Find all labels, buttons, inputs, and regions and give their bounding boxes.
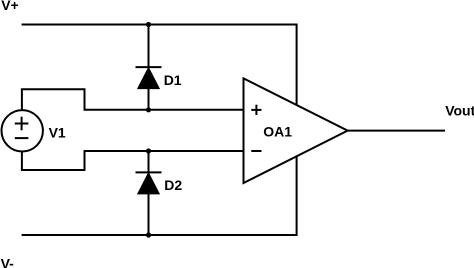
svg-text:Vout: Vout [445, 103, 474, 119]
node: D2 cathode on - input wire [146, 148, 151, 153]
svg-text:V1: V1 [49, 124, 66, 140]
svg-text:V+: V+ [1, 0, 19, 13]
wire: V- bottom rail [22, 234, 297, 236]
diode D1 [136, 24, 162, 111]
wire: V1 bottom lead to inverting path [22, 151, 85, 170]
svg-text:D1: D1 [164, 72, 182, 88]
node: D2 anode on V- rail [146, 232, 151, 237]
node: D1 cathode on V+ rail [146, 22, 151, 27]
wire: V- supply rise from op-amp bottom [296, 156, 298, 236]
svg-text:OA1: OA1 [263, 124, 292, 140]
wire: V1 top lead to noninverting path [22, 89, 85, 110]
svg-text:D2: D2 [164, 177, 182, 193]
op-amp OA1 [244, 78, 348, 183]
wire: noninverting input wire (+) [84, 109, 244, 111]
svg-text:V-: V- [1, 255, 15, 268]
wire: V+ top rail [22, 24, 297, 26]
node: D1 anode on + input wire [146, 107, 151, 112]
wire: inverting input wire (-) [84, 150, 244, 152]
diode D2 [136, 150, 162, 236]
wire: op-amp output to Vout [348, 130, 445, 132]
wire: V+ supply drop to op-amp top [296, 24, 298, 105]
voltage source V1 [2, 110, 43, 151]
